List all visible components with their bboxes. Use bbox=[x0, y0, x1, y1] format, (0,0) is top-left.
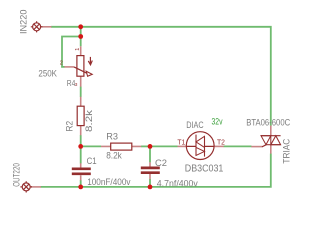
junction dot mid rail at C2 bbox=[148, 144, 153, 149]
potentiometer R4 adjust arrow bbox=[89, 57, 91, 64]
svg-text:8.2k: 8.2k bbox=[106, 150, 122, 160]
svg-text:T2: T2 bbox=[217, 137, 225, 146]
svg-text:DIAC: DIAC bbox=[186, 120, 203, 131]
wire top rail from IN220 to right corner down to TRIAC MT2 bbox=[51, 27, 271, 126]
diac D1 upper triangle bbox=[196, 136, 205, 147]
connector IN220 symbol bbox=[31, 21, 43, 32]
triac MT2 pin stub bbox=[270, 126, 272, 136]
diac D1 left bar bbox=[195, 135, 197, 156]
triac T1 bottom bar bbox=[266, 144, 281, 146]
svg-text:BTA06-600C: BTA06-600C bbox=[246, 118, 290, 128]
junction dot mid rail at R2 bbox=[78, 144, 83, 149]
svg-text:OUT220: OUT220 bbox=[11, 163, 21, 187]
svg-text:8.2k: 8.2k bbox=[84, 109, 94, 132]
diac D1 internal leads bbox=[187, 145, 214, 147]
potentiometer R4 wiper arrow bbox=[74, 67, 87, 73]
capacitor C2 pin stubs bbox=[149, 162, 151, 179]
svg-text:100nF/400v: 100nF/400v bbox=[87, 177, 131, 187]
svg-text:32v: 32v bbox=[212, 116, 223, 126]
svg-text:4.7nf/400v: 4.7nf/400v bbox=[157, 179, 198, 189]
triac T1 symbol right triangle bbox=[271, 136, 281, 145]
svg-text:3: 3 bbox=[75, 82, 78, 88]
triac T1 axis bbox=[270, 136, 272, 145]
junction dot pot wiper tap bbox=[78, 34, 83, 39]
svg-text:C2: C2 bbox=[155, 158, 167, 169]
connector OUT220 pin stub bbox=[31, 186, 41, 188]
svg-text:R2: R2 bbox=[64, 121, 74, 132]
triac MT1 pin stub bbox=[270, 145, 272, 154]
triac T1 symbol left triangle bbox=[261, 136, 271, 145]
triac gate pin stub bbox=[251, 146, 262, 148]
svg-text:2: 2 bbox=[60, 61, 63, 67]
diac D1 lower triangle bbox=[196, 147, 205, 155]
connector IN220 pin stub bbox=[41, 26, 51, 28]
wire pot feed vertical bbox=[80, 27, 82, 47]
svg-text:1: 1 bbox=[75, 48, 81, 51]
pot R4 pin3 stub bbox=[80, 76, 82, 87]
svg-text:C1: C1 bbox=[87, 156, 97, 167]
capacitor C2 plates bbox=[141, 168, 160, 173]
capacitor C1 plates bbox=[72, 169, 91, 174]
resistor R2 body bbox=[77, 106, 84, 125]
wire C2 vertical bbox=[149, 146, 151, 187]
wire pot to R2 bbox=[80, 87, 82, 98]
svg-text:250K: 250K bbox=[38, 69, 57, 79]
svg-text:T1: T1 bbox=[177, 138, 185, 147]
triac T1 top bar bbox=[261, 135, 281, 137]
diac D1 circle bbox=[186, 132, 214, 160]
pot R4 pin2 stub bbox=[64, 66, 74, 68]
wire C1 vertical bbox=[80, 146, 82, 187]
diac D1 pin T2 stub bbox=[214, 145, 224, 147]
resistor R2 pin stubs bbox=[80, 97, 82, 135]
connector OUT220 symbol bbox=[20, 181, 32, 192]
diac D1 pin T1 stub bbox=[178, 145, 187, 147]
svg-text:R3: R3 bbox=[106, 132, 118, 142]
junction dot top rail at pot feed bbox=[78, 24, 83, 29]
wire bottom rail from OUT220 to right corner up to TRIAC MT1 bbox=[41, 154, 271, 187]
svg-text:IN220: IN220 bbox=[19, 10, 29, 35]
resistor R3 pin stubs bbox=[101, 145, 141, 147]
wire mid rail segments bbox=[81, 145, 101, 147]
svg-text:DB3C031: DB3C031 bbox=[185, 163, 224, 174]
resistor R3 body bbox=[111, 143, 132, 150]
junction dot bottom rail at C1 bbox=[78, 185, 83, 190]
potentiometer R4 body bbox=[77, 56, 84, 77]
capacitor C1 pin stubs bbox=[80, 163, 82, 180]
pot R4 pin1 stub bbox=[80, 46, 82, 55]
junction dot bottom rail at C2 bbox=[148, 185, 153, 190]
svg-text:TRIAC: TRIAC bbox=[282, 138, 292, 163]
wire pot wiper loop bbox=[62, 37, 81, 67]
wire R2 to mid rail bbox=[80, 135, 82, 146]
diac D1 right bar bbox=[204, 136, 206, 156]
triac T1 gate lead bbox=[262, 145, 266, 147]
